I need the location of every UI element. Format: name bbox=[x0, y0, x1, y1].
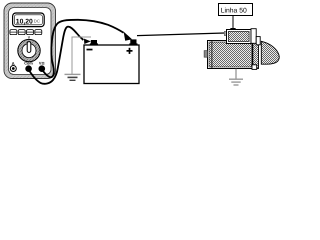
cable connector bbox=[224, 31, 228, 35]
minus label bbox=[87, 49, 93, 51]
probe arrow at negative bbox=[84, 39, 91, 44]
probe arrow at positive bbox=[124, 32, 132, 41]
svg-text:VΩ: VΩ bbox=[39, 62, 45, 66]
battery positive post bbox=[130, 39, 136, 45]
battery body bbox=[84, 45, 139, 84]
starter left knob bbox=[204, 51, 207, 58]
leader arrow bbox=[230, 28, 236, 33]
test lead (VΩ, loops under meter, to battery positive) bbox=[42, 20, 124, 77]
solenoid end cap 2 bbox=[256, 37, 260, 45]
nose cone bbox=[261, 41, 279, 64]
multimeter M1 case bbox=[4, 3, 56, 79]
svg-text:Linha 50: Linha 50 bbox=[221, 7, 247, 14]
leader line bbox=[232, 16, 234, 30]
starter foot bbox=[252, 65, 257, 70]
starter left end band bbox=[211, 41, 213, 69]
button row bbox=[10, 30, 42, 35]
starter body bbox=[208, 41, 253, 69]
svg-text:10,20: 10,20 bbox=[16, 19, 33, 26]
dial marker bbox=[28, 39, 32, 42]
svg-text:DC: DC bbox=[34, 19, 40, 24]
battery negative post bbox=[91, 40, 97, 45]
multimeter display bbox=[13, 13, 45, 27]
plus label bbox=[127, 50, 133, 52]
ground wire from battery negative bbox=[72, 37, 91, 74]
test lead (Com, loops under meter, to battery negative) bbox=[29, 27, 84, 84]
solenoid end cap 1 bbox=[251, 29, 256, 44]
cable battery+ to starter terminal 50 bbox=[137, 33, 225, 36]
solenoid bbox=[227, 30, 252, 44]
ground symbol (starter) bbox=[229, 78, 243, 80]
label box Linha 50 bbox=[219, 4, 253, 16]
drive flange bbox=[253, 40, 259, 69]
starter ground wire bbox=[235, 69, 237, 79]
ground symbol (battery) bbox=[65, 73, 81, 75]
svg-text:Com: Com bbox=[24, 62, 33, 66]
rotary dial bbox=[18, 39, 40, 61]
dial knob bbox=[27, 42, 31, 53]
